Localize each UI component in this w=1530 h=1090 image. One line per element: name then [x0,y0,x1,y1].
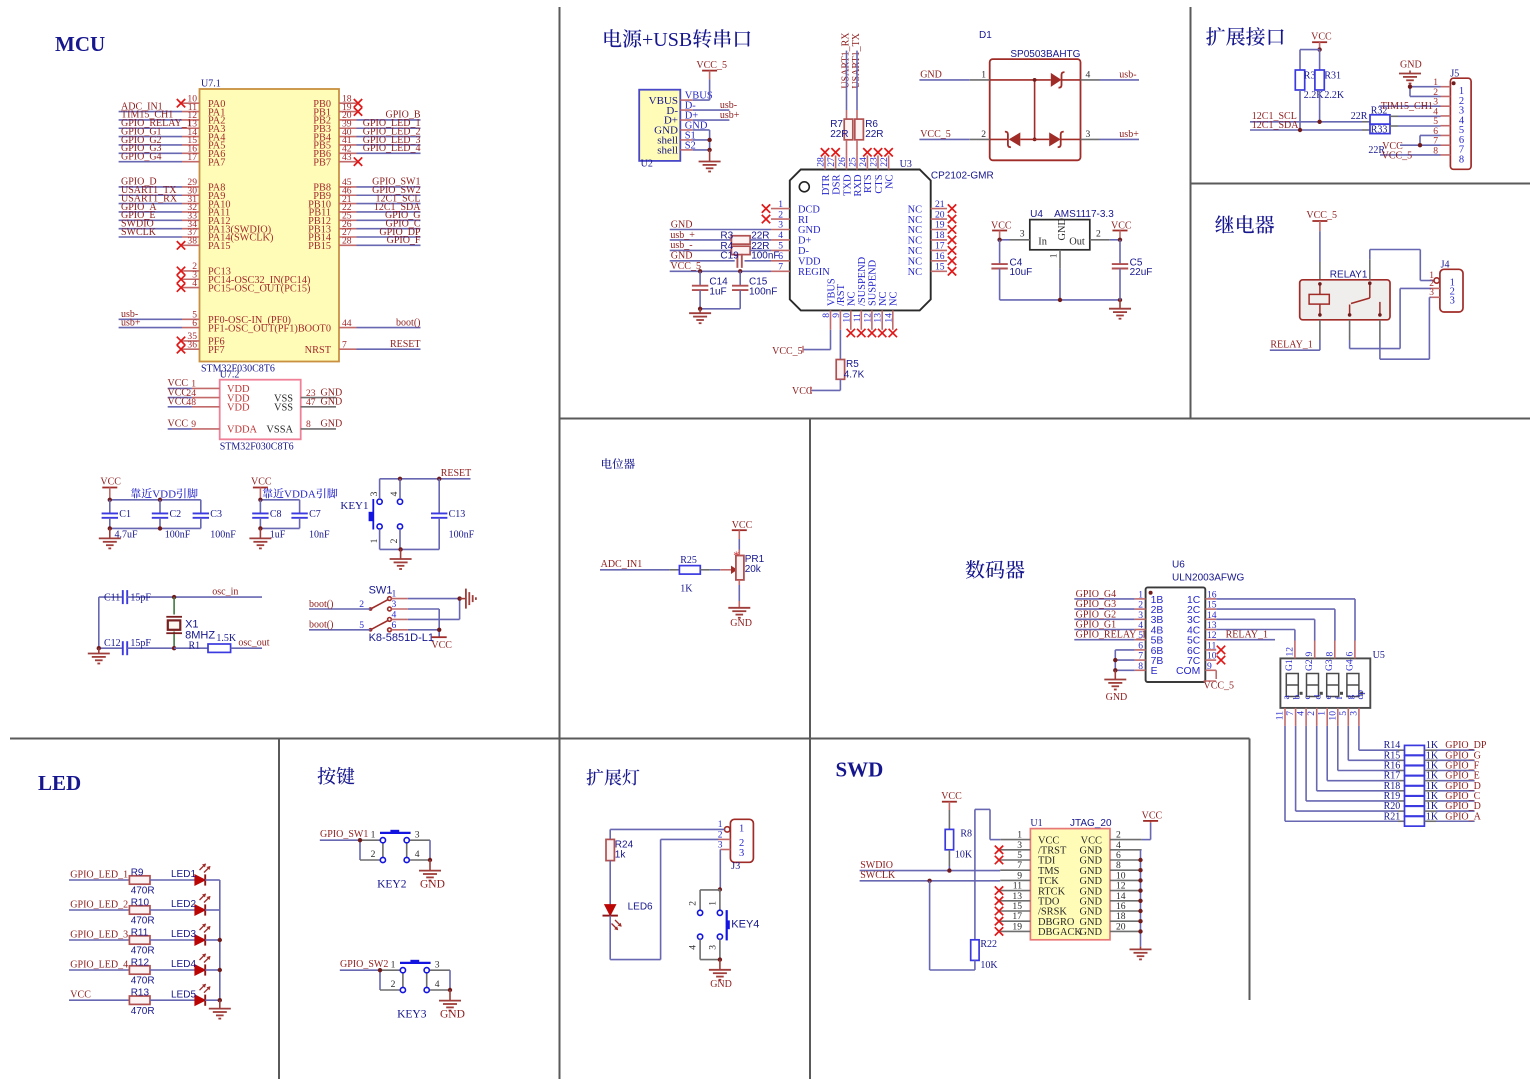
svg-text:1: 1 [369,538,380,543]
U5 pin 9 [1304,641,1315,659]
U1 pin 16 GND [1079,901,1141,918]
wire net GPIO_G3 [119,143,182,154]
svg-text:+USB: +USB [642,29,692,51]
svg-text:7: 7 [342,339,347,350]
wire U6 COM to VCC_5 [1204,670,1235,691]
U1 pin 8 GND [1079,860,1141,877]
node osc_in junction [172,595,176,599]
wire net GPIO_G1 [119,126,182,137]
wire osc_in [174,586,262,597]
U7.1 pin 35 PF6 [177,331,225,348]
wire net GPIO_G4 [119,151,182,162]
wire U4 bottom rail [1000,299,1120,301]
svg-text:16: 16 [935,251,945,262]
svg-text:SWD: SWD [836,758,884,782]
svg-text:U6: U6 [1172,560,1185,571]
wire VCC to R31 [1319,50,1321,70]
svg-text:4.7K: 4.7K [844,369,865,380]
svg-text:100nF: 100nF [749,287,777,298]
crystal X1 8MHZ [166,597,215,648]
resistor R5 4.7K [836,359,864,380]
svg-text:U4: U4 [1030,209,1043,220]
svg-text:10: 10 [1327,711,1338,721]
node C15 top junction [738,269,742,273]
U1 pin 14 GND [1079,891,1141,908]
wire U6 4C to U5 pin12 [1216,630,1295,641]
wire net TIM15_CH1 (J5 pin3) [1379,101,1441,112]
wire U5 pin 2 to R18 [1317,726,1405,791]
USB-UART U3 CP2102-GMR [790,159,994,311]
wire relay contact A to J4 pin2 [1350,288,1431,348]
svg-text:PA7: PA7 [208,157,225,168]
svg-text:NC: NC [908,257,923,268]
J4 pin 2 [1429,279,1440,289]
U6 pin 16 1C [1187,589,1217,605]
U1 pin 12 GND [1079,881,1141,898]
U5 pin 3 segment dp [1348,690,1366,726]
wire net GPIO_SW2 [357,185,421,196]
svg-text:1: 1 [391,959,396,970]
svg-text:VCC_5: VCC_5 [696,60,727,71]
resistor R24 1k [606,839,634,860]
U7.1 pin 31 PA10 [182,194,231,211]
resistor R14 1K [1384,740,1439,755]
svg-text:14: 14 [883,313,894,323]
svg-text:100nF: 100nF [210,529,236,540]
resistor R9 470R [129,867,154,896]
svg-text:boot(): boot() [309,620,333,631]
svg-text:usb-: usb- [1119,69,1136,80]
svg-text:8: 8 [1459,154,1464,165]
svg-text:J3: J3 [731,861,740,872]
svg-text:NC: NC [908,236,923,247]
wire [205,969,220,971]
svg-text:NC: NC [847,291,858,306]
U6 pin 13 4C [1187,620,1217,636]
wire [150,909,195,911]
svg-text:PB15: PB15 [308,241,331,252]
svg-text:3: 3 [707,945,718,950]
svg-text:3: 3 [739,848,744,859]
svg-text:R1: R1 [189,640,201,651]
power symbol VCC (VDD caps) [100,477,121,500]
LED LED3 [171,924,211,946]
svg-text:GND: GND [671,251,693,262]
power symbol VCC (PR1) [732,520,753,539]
wire net GND (D1) [919,69,969,80]
connector U1 JTAG_20 [1030,818,1112,940]
U3 pin 13 NC [873,291,889,337]
svg-text:C7: C7 [309,509,321,520]
wire VDDA caps bottom rail [260,527,299,529]
wire net GPIO_LED_4 [69,960,129,971]
wire net GPIO_LED_2 [357,126,421,137]
wire [150,939,195,941]
wire SW1 pin4 riser [408,599,460,620]
U7.1 pin 19 PB1 [313,102,362,119]
svg-text:DCD: DCD [798,204,820,215]
wire net GPIO_E [1424,771,1479,782]
svg-text:CTS: CTS [874,174,885,193]
svg-text:U7.1: U7.1 [201,79,221,90]
U7.2 pin 1 VDD [191,379,250,396]
node SW1 pins1-4 junction [457,596,461,600]
wire net RELAY_1 [1270,340,1320,351]
section title 电位器 [602,458,635,469]
ground (SW1, rotated) [460,589,476,609]
svg-text:8: 8 [306,419,311,430]
svg-text:J5: J5 [1450,68,1459,79]
resistor R32 22R [1351,106,1390,125]
U7.1 pin 15 PA5 [182,135,225,152]
wire VDD caps top rail [110,499,201,501]
svg-text:R31: R31 [1324,70,1341,81]
svg-text:GND: GND [321,419,343,430]
wire net VCC [69,990,129,1001]
U1 pin 3 /TRST [995,840,1067,857]
node C1 bottom junction [108,526,112,530]
U5 pin 12 [1284,641,1295,659]
U7.1 pin 12 PA2 [182,110,225,127]
wire net boot() [357,317,421,328]
svg-text:VCC: VCC [168,397,189,408]
svg-text:D+: D+ [798,236,812,247]
wire U4 GND drop [1059,269,1061,300]
wire net GPIO_B [357,110,421,121]
wire net GPIO_G3 [1074,599,1134,610]
svg-text:4: 4 [1086,70,1091,81]
capacitor C15 100nF [732,271,777,309]
node KEY3 junction [378,968,382,972]
U3 pin 4 D+ [771,230,812,247]
wire U5 pin 5 to R15 [1348,726,1404,760]
svg-text:KEY1: KEY1 [340,500,368,512]
wire net usb- [119,309,182,320]
node U1 pin 20 junction [1138,929,1142,933]
svg-text:23: 23 [869,157,880,167]
svg-text:NC: NC [878,291,889,306]
wire net GND [318,419,342,430]
svg-text:5: 5 [1338,711,1349,716]
wire net ADC_IN1 [119,101,182,112]
svg-text:15pF: 15pF [130,638,151,649]
ground (KEY3) [439,990,465,1021]
regulator U4 AMS1117-3.3 [1030,209,1114,250]
U3 pin 18 NC [908,230,957,247]
wire net GPIO_C [357,218,421,229]
ground (U4) [1109,300,1131,319]
U7.1 pin 37 PA14(SWCLK) [182,227,273,244]
U7.1 pin 7 NRST [305,339,357,356]
svg-text:GND: GND [1106,692,1128,703]
wire VCC_5 to relay coil [1319,231,1321,280]
power symbol VCC (SW1) [431,637,452,651]
wire net GPIO_LED_2 [69,900,129,911]
resistor R12 470R [129,957,154,986]
U3 pin 23 CTS [869,148,885,193]
svg-text:R21: R21 [1384,811,1401,822]
U4 pin 1 GND [1048,250,1060,269]
svg-text:6: 6 [392,620,397,631]
connector J3 [730,819,753,872]
wire net TIM15_CH1 [119,110,182,121]
U7.1 pin 5 PF0-OSC-IN_(PF0) [182,310,291,327]
svg-text:D-: D- [798,246,810,257]
no-connect X U6 pin10 [1217,656,1225,664]
resistor R30 2.2K [1295,70,1324,101]
label 靠近VDDA引脚 [263,488,338,500]
svg-text:11: 11 [852,313,863,322]
wire net usb_+ (U3 pin4) [670,230,732,241]
wire net GND (U3 pin3) [670,219,771,230]
svg-text:NC: NC [908,204,923,215]
U1 pin 4 GND [1079,840,1141,857]
svg-text:C1: C1 [119,509,131,520]
label net VCC (R5) [792,386,813,397]
svg-text:TXD: TXD [842,174,853,196]
svg-text:2: 2 [389,538,400,543]
capacitor C11 [99,590,174,604]
svg-text:VDDA: VDDA [284,488,316,500]
wire net RESET [357,339,421,350]
svg-text:U1: U1 [1030,818,1042,829]
capacitor C3 [193,500,237,541]
svg-text:1: 1 [707,901,718,906]
node SCL-R31 junction [1317,120,1321,124]
svg-text:VCC: VCC [941,791,962,802]
svg-text:GPIO_LED_3: GPIO_LED_3 [70,930,128,941]
svg-text:R8: R8 [960,829,972,840]
ground (KEY2) [419,860,445,891]
svg-text:C11: C11 [104,593,120,604]
wire net 12C1_SCL [357,193,421,204]
U3 pin 2 RI [762,209,809,226]
wire net usb+ (U2) [693,110,740,121]
svg-text:G1: G1 [1284,659,1295,671]
wire net usb_- (U3 pin5) [670,240,732,251]
U7.1 pin 11 PA1 [182,102,225,119]
svg-text:4: 4 [192,278,197,289]
wire net GPIO_SW1 [320,829,369,840]
svg-text:VCC_5: VCC_5 [1382,150,1413,161]
svg-text:9: 9 [831,313,842,318]
wire left riser [98,597,100,648]
U7.1 pin 41 PB5 [313,135,356,152]
wire net VCC [168,387,192,398]
svg-text:20: 20 [935,209,945,220]
ground (VDDA caps) [249,528,271,548]
node LED3 junction [218,938,222,942]
D1 pin 3 [1081,129,1100,140]
U7.1 pin 16 PA6 [182,144,225,161]
wire SW1 pin6 [408,629,439,631]
power symbol VCC_5 (relay) [1306,210,1337,231]
svg-text:GND: GND [920,69,942,80]
resistor R8 10K [945,829,973,861]
svg-text:2: 2 [371,849,376,860]
svg-text:CP2102-GMR: CP2102-GMR [931,170,994,181]
svg-text:47: 47 [306,397,316,408]
U5 pin 10 segment f [1327,696,1345,726]
wire U5 pin 1 to R17 [1327,726,1404,781]
svg-text:NC: NC [908,267,923,278]
svg-text:VCC_5: VCC_5 [920,129,951,140]
U7.1 pin 30 PA9 [182,185,225,202]
U7.1 pin 46 PB9 [313,185,356,202]
J4 pin 1 [1429,271,1439,283]
U3 pin 25 RXD [848,155,864,196]
wire U6 2C to U5 pin8 [1216,609,1335,640]
svg-text:DTR: DTR [821,174,832,195]
svg-text:U7.2: U7.2 [220,370,240,381]
svg-text:22: 22 [879,157,890,167]
svg-text:VDD: VDD [227,403,250,414]
wire net SWCLK [860,870,1001,881]
driver U6 ULN2003AFWG [1146,560,1245,683]
capacitor C14 1uF [692,271,728,309]
svg-text:3: 3 [1086,129,1091,140]
svg-text:43: 43 [342,152,352,163]
resistor R22 10K [971,939,999,971]
section title 扩展灯 [587,769,640,786]
node C14 ground junction [698,307,702,311]
svg-text:Out: Out [1069,237,1085,248]
U1 pin 6 GND [1079,850,1141,867]
wire net RELAY_1 (U6 5C) [1216,630,1275,641]
U7.1 pin 25 PB12 [308,211,356,228]
svg-text:GND: GND [321,397,343,408]
wire U3 /RST to R5 [839,330,841,360]
U6 pin 7 7B [1135,651,1164,667]
svg-text:1k: 1k [615,850,627,861]
node C12 left junction [97,646,101,650]
power symbol VCC (pullups) [1311,32,1332,50]
LED LED5 [171,984,211,1006]
svg-text:R33: R33 [1371,124,1388,135]
wire net GPIO_RELAY_1 [1074,630,1146,641]
svg-text:9: 9 [191,419,196,430]
wire net GPIO_A [1424,811,1481,822]
svg-text:VCC_5: VCC_5 [670,261,701,272]
svg-text:C12: C12 [104,638,121,649]
svg-text:1: 1 [718,820,723,830]
svg-text:38: 38 [187,236,197,247]
svg-text:VCC: VCC [70,990,91,1001]
U1 pin 2 VCC [1081,830,1142,847]
relay RELAY1 [1300,270,1390,320]
svg-text:PF1-OSC_OUT(PF1): PF1-OSC_OUT(PF1) [208,323,298,334]
LED LED2 [171,894,211,916]
wire R5 to VCC [811,379,841,390]
wire net GPIO_DP [357,227,421,238]
ground (KEY1) [390,549,412,569]
svg-text:17: 17 [935,241,945,252]
ground (VDD caps) [99,528,121,548]
D1 internal diode bottom-right (to pin 3) [1035,132,1081,148]
connector J4 [1440,260,1463,312]
svg-text:15: 15 [935,262,945,273]
capacitor C8 [252,500,286,541]
U7.1 pin 45 PB8 [313,177,356,194]
wire U1 pin2 to VCC [1142,821,1151,840]
resistor R25 1K [679,555,700,594]
svg-text:470R: 470R [131,946,155,957]
svg-text:470R: 470R [131,976,155,987]
J3 pin 1 [718,820,730,832]
U3 pin 20 NC [908,209,957,226]
U5 pin 6 [1344,641,1355,659]
svg-text:GPIO_A: GPIO_A [1445,811,1481,822]
svg-text:NRST: NRST [305,345,332,356]
U1 pin 19 DBGACK [995,921,1083,938]
svg-text:C3: C3 [210,509,222,520]
capacitor C2 [152,500,191,541]
svg-text:2.2K: 2.2K [1304,90,1325,101]
svg-text:R9: R9 [131,867,144,878]
svg-text:1: 1 [1048,253,1059,258]
U1 pin 9 TCK [1000,870,1059,887]
svg-text:RELAY1: RELAY1 [1330,270,1368,281]
svg-text:GND: GND [1400,60,1422,71]
wire net GPIO_DP [1424,740,1486,751]
svg-text:4: 4 [688,945,699,950]
wire net GPIO_LED_1 [357,118,421,129]
svg-text:STM32F030C8T6: STM32F030C8T6 [220,442,294,453]
svg-text:NC: NC [889,291,900,306]
U3 pin 10 NC [841,291,857,337]
U3 pin 28 DTR [816,148,832,195]
resistor R21 1K [1384,811,1439,826]
wire LED6 loop to J3 pin2 [610,839,718,959]
wire PR1 bottom to GND [738,580,740,608]
svg-text:2: 2 [1306,711,1317,716]
U1 pin 10 GND [1079,870,1141,887]
U1 pin 7 TMS [1000,860,1059,877]
svg-text:GND: GND [440,1009,465,1021]
node KEY4 top junction [718,887,722,891]
svg-text:4: 4 [389,491,400,496]
wire R31 to SCL [1319,90,1321,122]
resistor R7 22R [830,119,853,140]
svg-text:20: 20 [1116,921,1126,932]
svg-text:10nF: 10nF [309,529,330,540]
pushbutton KEY3 [380,959,450,1020]
svg-text:13: 13 [873,313,884,323]
U5 pin 2 segment d [1306,695,1324,726]
svg-text:4: 4 [1296,711,1307,716]
label net VCC_5 (U3 pin8) [772,346,803,357]
wire net VCC_5 (D1) [919,129,969,140]
wire net 12C1_SCL [1250,111,1362,122]
U7.1 pin 3 PC14-OSC32_IN(PC14) [177,269,311,286]
svg-text:19: 19 [935,220,945,231]
resistor R11 470R [129,927,154,956]
resistor R13 470R [129,988,154,1017]
U2 pin VBUS (VBUS) [649,91,713,107]
wire net VCC_5 (J5 pin8) [1380,150,1441,161]
svg-text:100nF: 100nF [751,251,779,262]
wire R22 bottom to SWCLK [930,881,975,970]
wire SW1 pin3 riser [408,609,439,637]
U6 pin 11 6C [1187,640,1216,656]
svg-text:usb+: usb+ [121,317,141,328]
svg-text:VDDA: VDDA [227,425,258,436]
svg-text:6: 6 [192,318,197,329]
U1 pin 1 VCC [1000,830,1059,847]
wire VDDA caps top rail [260,499,299,501]
svg-text:usb_-: usb_- [670,240,692,251]
U7.2 pin 8 VSSA [266,419,318,436]
